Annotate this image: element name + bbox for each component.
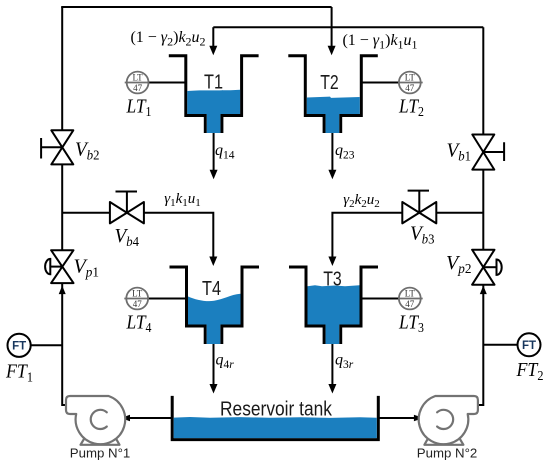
svg-text:LT: LT bbox=[405, 73, 416, 83]
tank T1 outline bbox=[169, 56, 259, 133]
wire: second top horizontal line (pump2 flow to T1) bbox=[213, 26, 483, 28]
arrow: into tank T3 bbox=[328, 257, 336, 267]
level transmitter LT3 bubble bbox=[361, 288, 423, 310]
reservoir tank outline bbox=[172, 396, 378, 440]
level transmitter LT4 bubble bbox=[124, 288, 186, 310]
level transmitter LT2 bubble bbox=[361, 72, 422, 94]
svg-text:LT: LT bbox=[133, 73, 144, 83]
arrow: into tank T2 bbox=[328, 46, 336, 56]
level transmitter LT1 bubble bbox=[125, 72, 186, 94]
wire: drain q4r from T4 bbox=[213, 344, 215, 386]
tank T2 outline bbox=[288, 56, 378, 133]
svg-text:47: 47 bbox=[405, 299, 415, 309]
pump N°2 symbol bbox=[419, 396, 478, 445]
svg-text:47: 47 bbox=[405, 83, 415, 93]
svg-text:Pump N°1: Pump N°1 bbox=[70, 446, 131, 461]
svg-text:LT: LT bbox=[132, 289, 143, 299]
tank T3 water bbox=[308, 285, 360, 344]
arrow: q3r into reservoir bbox=[328, 384, 336, 394]
tank T3 outline bbox=[289, 267, 378, 344]
arrow: into tank T1 bbox=[209, 46, 217, 56]
arrow: into tank T4 bbox=[209, 257, 217, 267]
arrow: q14 into T4 region bbox=[210, 170, 218, 180]
tank T2 water bbox=[307, 97, 360, 133]
valve Vb1 bbox=[472, 135, 504, 170]
wire: drain q3r from T3 bbox=[331, 344, 333, 386]
wire: vertical drop into tank T1 bbox=[212, 27, 214, 48]
reservoir water bbox=[174, 417, 377, 438]
svg-text:T1: T1 bbox=[204, 72, 223, 94]
wire: vertical drop into tank T2 bbox=[331, 7, 333, 48]
wire: left vertical main line from pump 1 up to top bbox=[62, 7, 67, 405]
arrow: flow up into Vp2 bbox=[480, 286, 487, 295]
svg-text:LT: LT bbox=[405, 289, 416, 299]
svg-text:T4: T4 bbox=[202, 278, 221, 300]
tank T1 water bbox=[187, 90, 240, 133]
arrow: q4r into reservoir bbox=[210, 384, 218, 394]
arrow: flow up into Vp1 bbox=[59, 286, 66, 295]
arrow: q23 bbox=[328, 170, 336, 180]
pump N°1 symbol bbox=[66, 396, 125, 445]
wire: branch to valve Vb3 and into tank T3 bbox=[332, 213, 483, 258]
valve Vb2 bbox=[41, 130, 73, 164]
svg-text:FT: FT bbox=[12, 341, 26, 353]
valve Vp2 bbox=[472, 250, 502, 285]
svg-text:T3: T3 bbox=[323, 268, 342, 290]
svg-text:Reservoir tank: Reservoir tank bbox=[220, 398, 333, 421]
valve Vb3 bbox=[402, 191, 436, 224]
wire: top outer horizontal line (pump1 flow to T2) bbox=[61, 6, 331, 8]
arrow: into pump 1 bbox=[121, 415, 131, 421]
wire: reservoir to pump 2 suction bbox=[378, 417, 414, 419]
svg-text:T2: T2 bbox=[320, 72, 339, 94]
tank T4 water bbox=[188, 294, 241, 344]
flow transmitter FT1 bubble bbox=[8, 334, 63, 357]
svg-text:47: 47 bbox=[133, 83, 143, 93]
svg-text:FT: FT bbox=[522, 340, 536, 352]
valve Vb4 bbox=[110, 192, 144, 224]
svg-text:47: 47 bbox=[133, 299, 143, 309]
wire: branch to valve Vb4 and into tank T4 bbox=[62, 213, 213, 258]
wire: drain q23 from T2 bbox=[331, 133, 333, 172]
tank T4 outline bbox=[170, 267, 260, 344]
wire: reservoir to pump 1 suction bbox=[129, 417, 172, 419]
valve Vp1 bbox=[45, 250, 73, 283]
wire: right vertical main line from pump 2 up bbox=[478, 27, 484, 405]
flow transmitter FT2 bubble bbox=[483, 333, 540, 356]
wire: drain q14 from T1 bbox=[213, 133, 215, 172]
arrow: into pump 2 bbox=[414, 415, 424, 421]
svg-text:Pump N°2: Pump N°2 bbox=[417, 446, 478, 461]
